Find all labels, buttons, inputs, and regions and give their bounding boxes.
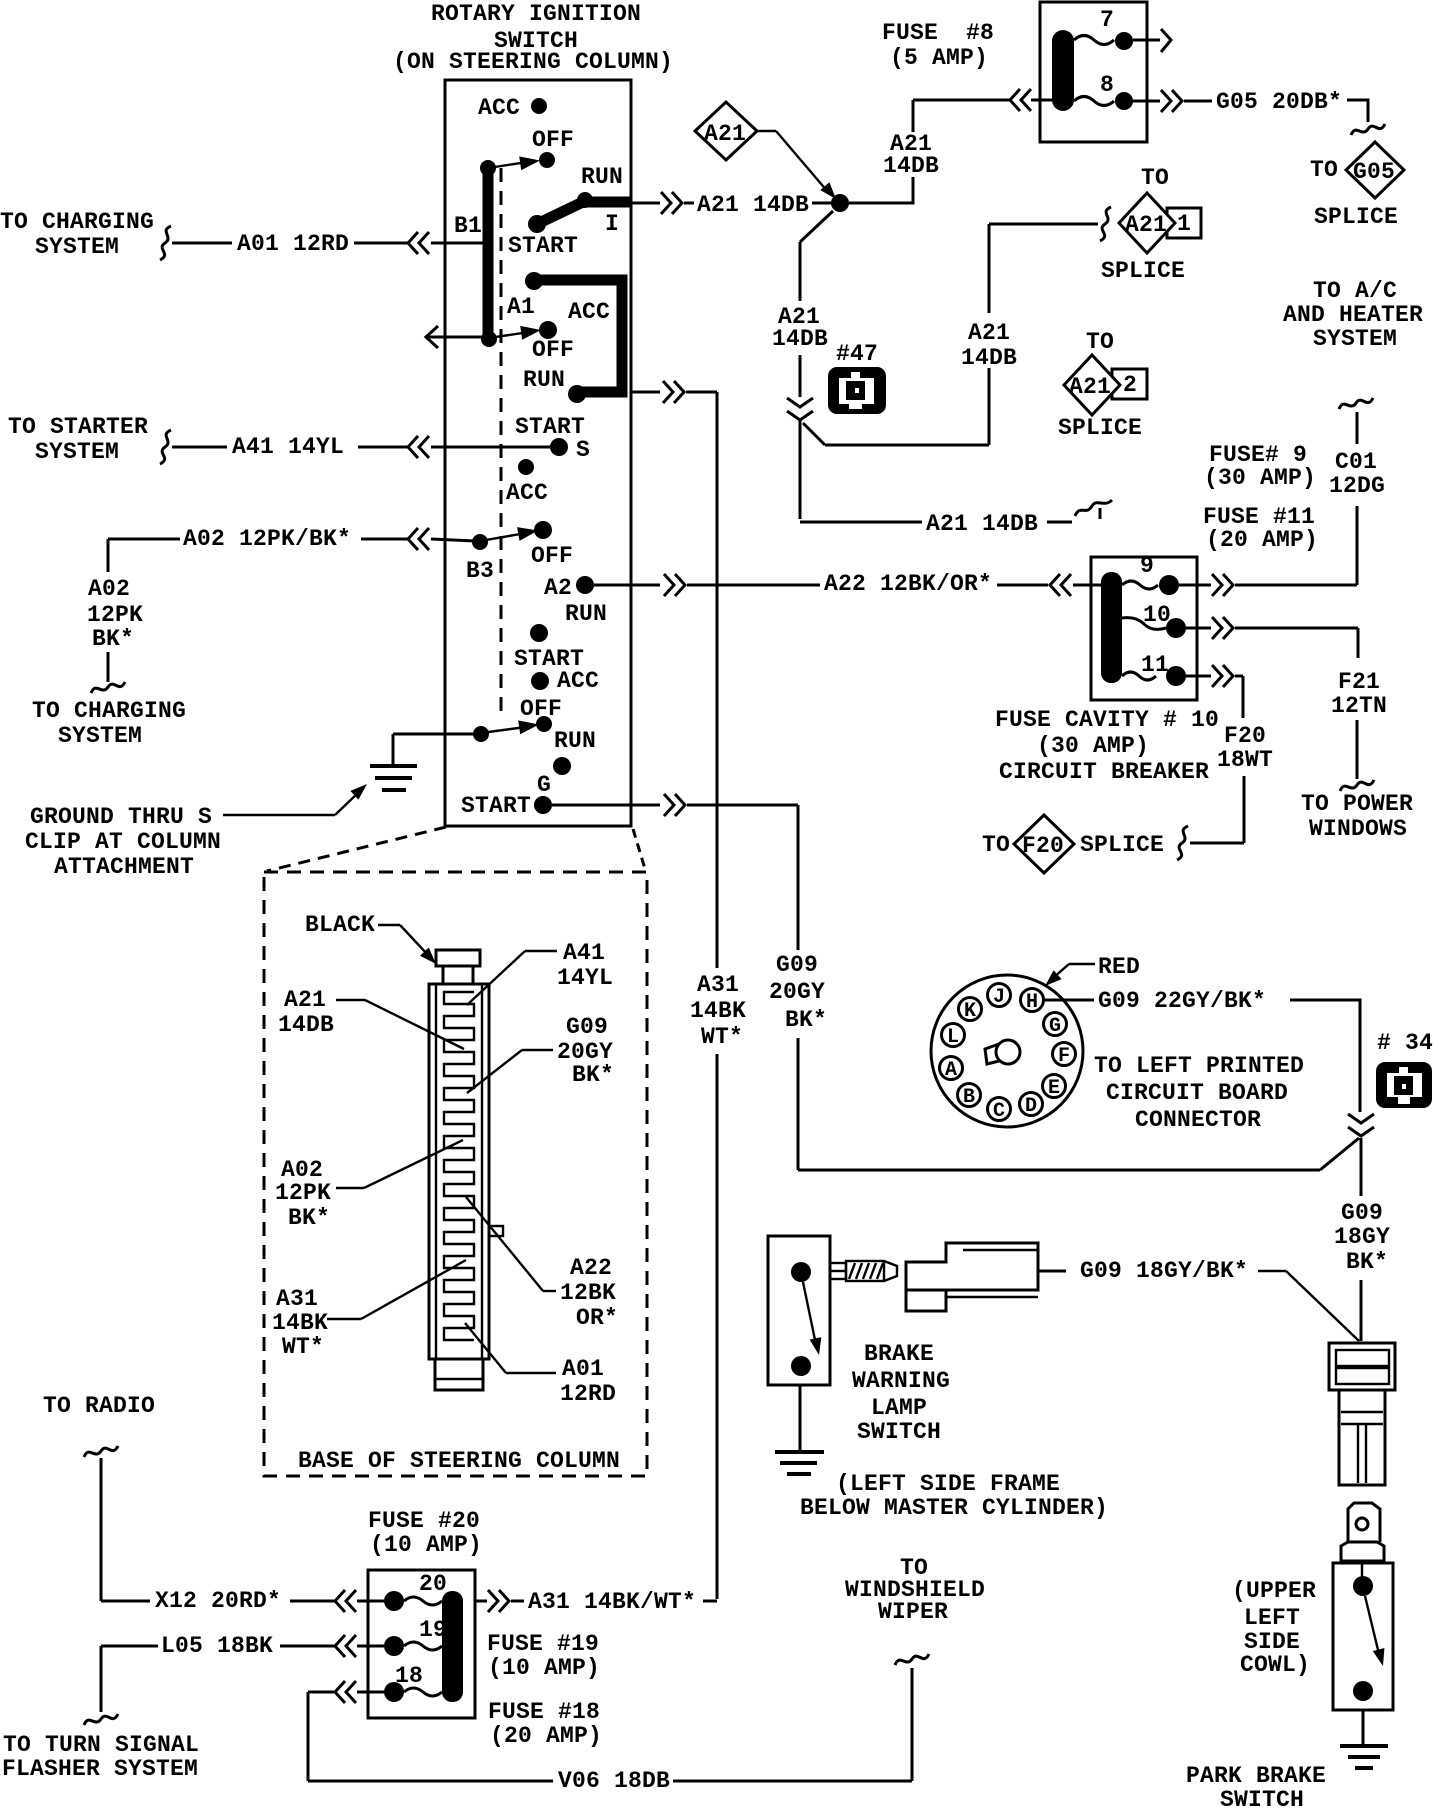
wire G09 18GY BK* down to park brake <box>1360 1138 1363 1196</box>
wire A21 14DB branch down from junction <box>800 211 833 242</box>
svg-text:ACC: ACC <box>557 668 599 694</box>
svg-text:START: START <box>515 414 585 440</box>
svg-text:SPLICE: SPLICE <box>1101 258 1185 284</box>
svg-text:14BK: 14BK <box>272 1310 328 1336</box>
svg-text:ACC: ACC <box>478 95 520 121</box>
svg-text:TO: TO <box>1086 329 1114 355</box>
svg-text:TO TURN SIGNAL: TO TURN SIGNAL <box>3 1732 199 1758</box>
contact START row1 + I <box>528 215 546 233</box>
svg-text:G09 22GY/BK*: G09 22GY/BK* <box>1098 988 1266 1014</box>
svg-text:(20 AMP): (20 AMP) <box>490 1723 602 1749</box>
svg-text:G: G <box>537 772 551 798</box>
svg-text:F21: F21 <box>1338 669 1380 695</box>
ground pointer arrow <box>223 814 335 816</box>
svg-text:I: I <box>605 211 619 237</box>
svg-text:PARK BRAKE: PARK BRAKE <box>1186 1763 1326 1789</box>
svg-text:A22 12BK/OR*: A22 12BK/OR* <box>824 571 992 597</box>
svg-text:12BK: 12BK <box>560 1280 616 1306</box>
svg-text:# 34: # 34 <box>1377 1030 1433 1056</box>
svg-text:12RD: 12RD <box>560 1381 616 1407</box>
svg-text:A01: A01 <box>562 1356 604 1382</box>
wire to windshield wiper <box>911 1668 914 1781</box>
svg-text:2: 2 <box>1123 372 1137 398</box>
svg-text:7: 7 <box>1100 7 1114 33</box>
thick bar RUN to box edge <box>583 197 631 208</box>
svg-text:TO: TO <box>1141 165 1169 191</box>
svg-text:#47: #47 <box>836 341 878 367</box>
park brake connector cap <box>1329 1343 1395 1390</box>
svg-text:(10 AMP): (10 AMP) <box>370 1532 482 1558</box>
svg-text:(ON STEERING COLUMN): (ON STEERING COLUMN) <box>393 49 673 75</box>
wiper arm B3: dot to ACC contact <box>472 534 488 550</box>
svg-text:SYSTEM: SYSTEM <box>1313 326 1397 352</box>
splice diamond A21 (top) <box>695 102 757 160</box>
pin B <box>958 1084 981 1107</box>
svg-text:14BK: 14BK <box>690 998 746 1024</box>
svg-text:G05: G05 <box>1353 159 1395 185</box>
pin K <box>959 998 982 1021</box>
svg-text:20: 20 <box>419 1571 447 1597</box>
svg-text:G: G <box>1049 1015 1061 1038</box>
wire ground row into switch <box>393 733 475 736</box>
park brake switch flange <box>1341 1542 1384 1561</box>
contact ACC row4 <box>531 672 549 690</box>
svg-text:(10 AMP): (10 AMP) <box>488 1655 600 1681</box>
pin D <box>1020 1093 1043 1116</box>
ground symbol (column clip) <box>392 734 395 766</box>
svg-text:TO STARTER: TO STARTER <box>8 414 148 440</box>
svg-text:WIPER: WIPER <box>878 1599 948 1625</box>
svg-text:A: A <box>945 1059 957 1082</box>
svg-text:J: J <box>993 986 1005 1009</box>
svg-text:14DB: 14DB <box>883 153 939 179</box>
svg-text:WT*: WT* <box>701 1024 743 1050</box>
wire A31 vertical <box>716 392 719 968</box>
svg-text:BRAKE: BRAKE <box>864 1341 934 1367</box>
svg-text:B: B <box>963 1086 975 1109</box>
svg-text:ATTACHMENT: ATTACHMENT <box>54 854 194 880</box>
svg-text:L05 18BK: L05 18BK <box>161 1633 273 1659</box>
svg-text:COWL): COWL) <box>1240 1652 1310 1678</box>
svg-text:H: H <box>1026 991 1038 1014</box>
svg-text:E: E <box>1048 1077 1060 1100</box>
svg-text:A21 14DB: A21 14DB <box>697 192 809 218</box>
wire START/G output row <box>552 804 660 807</box>
svg-text:V06 18DB: V06 18DB <box>558 1768 670 1794</box>
svg-text:(30 AMP): (30 AMP) <box>1037 733 1149 759</box>
svg-text:SYSTEM: SYSTEM <box>35 439 119 465</box>
svg-text:A02: A02 <box>88 576 130 602</box>
svg-text:TO A/C: TO A/C <box>1313 278 1397 304</box>
svg-text:START: START <box>461 793 531 819</box>
svg-text:A02 12PK/BK*: A02 12PK/BK* <box>183 526 351 552</box>
svg-text:A1: A1 <box>507 294 535 320</box>
svg-text:RED: RED <box>1098 954 1140 980</box>
svg-text:12PK: 12PK <box>87 602 143 628</box>
svg-text:BASE OF STEERING COLUMN: BASE OF STEERING COLUMN <box>298 1448 620 1474</box>
svg-text:9: 9 <box>1140 553 1154 579</box>
svg-text:ACC: ACC <box>506 480 548 506</box>
svg-text:14DB: 14DB <box>278 1012 334 1038</box>
svg-text:AND HEATER: AND HEATER <box>1283 302 1423 328</box>
pin J <box>988 984 1011 1007</box>
svg-text:18GY: 18GY <box>1334 1224 1390 1250</box>
wire G09 18GY/BK* <box>1038 1270 1066 1273</box>
park brake switch tab <box>1348 1503 1380 1542</box>
svg-text:FUSE #19: FUSE #19 <box>487 1631 599 1657</box>
svg-text:A31: A31 <box>697 972 739 998</box>
pin A <box>940 1057 963 1080</box>
wire A02 branch down <box>107 539 110 572</box>
svg-text:A21: A21 <box>1125 212 1167 238</box>
svg-text:G09 18GY/BK*: G09 18GY/BK* <box>1080 1258 1248 1284</box>
svg-text:B1: B1 <box>454 213 482 239</box>
svg-text:TO: TO <box>1310 157 1338 183</box>
svg-text:(UPPER: (UPPER <box>1232 1578 1316 1604</box>
svg-text:12DG: 12DG <box>1329 473 1385 499</box>
svg-text:BELOW MASTER CYLINDER): BELOW MASTER CYLINDER) <box>800 1495 1108 1521</box>
wire G09 22GY/BK* from pin H <box>1043 999 1094 1002</box>
left printed circuit board connector (round) <box>931 975 1083 1127</box>
svg-text:TO CHARGING: TO CHARGING <box>32 698 186 724</box>
svg-text:ACC: ACC <box>568 299 610 325</box>
svg-text:RUN: RUN <box>554 728 596 754</box>
contact START row3 <box>530 624 548 642</box>
rotary ignition switch body <box>445 80 631 826</box>
svg-text:L: L <box>947 1026 959 1049</box>
svg-text:12PK: 12PK <box>275 1180 331 1206</box>
svg-text:A31 14BK/WT*: A31 14BK/WT* <box>528 1589 696 1615</box>
svg-text:SPLICE: SPLICE <box>1058 415 1142 441</box>
wire F20 18WT <box>1242 676 1245 718</box>
svg-text:(5 AMP): (5 AMP) <box>890 45 988 71</box>
svg-text:ROTARY IGNITION: ROTARY IGNITION <box>431 1 641 27</box>
thick wiper START-RUN <box>537 201 585 224</box>
svg-text:A21: A21 <box>1069 374 1111 400</box>
svg-text:TO POWER: TO POWER <box>1301 791 1413 817</box>
svg-text:FUSE #20: FUSE #20 <box>368 1508 480 1534</box>
svg-text:BK*: BK* <box>92 626 134 652</box>
svg-text:WARNING: WARNING <box>852 1368 950 1394</box>
svg-text:14DB: 14DB <box>961 345 1017 371</box>
svg-text:FLASHER SYSTEM: FLASHER SYSTEM <box>2 1756 198 1782</box>
svg-text:K: K <box>964 1000 976 1023</box>
svg-text:RUN: RUN <box>523 367 565 393</box>
dashed box base of steering column <box>264 872 647 1476</box>
svg-text:A31: A31 <box>276 1286 318 1312</box>
svg-text:OFF: OFF <box>531 543 573 569</box>
pin G <box>1044 1013 1067 1036</box>
svg-text:CLIP AT COLUMN: CLIP AT COLUMN <box>25 829 221 855</box>
svg-text:TO: TO <box>982 832 1010 858</box>
svg-text:B3: B3 <box>466 558 494 584</box>
svg-text:CIRCUIT BOARD: CIRCUIT BOARD <box>1106 1080 1288 1106</box>
svg-text:A41: A41 <box>563 940 605 966</box>
wire G09 20GY/BK* vertical <box>797 805 800 950</box>
svg-text:A21: A21 <box>284 987 326 1013</box>
svg-text:FUSE #18: FUSE #18 <box>488 1699 600 1725</box>
svg-text:LEFT: LEFT <box>1244 1605 1300 1631</box>
fuse #8 block <box>1040 2 1147 142</box>
contact A1 <box>525 272 543 290</box>
svg-text:1: 1 <box>1177 211 1191 237</box>
connector body <box>429 984 489 1359</box>
svg-text:BK*: BK* <box>785 1007 827 1033</box>
svg-text:OR*: OR* <box>576 1305 618 1331</box>
svg-text:A21: A21 <box>704 121 746 147</box>
connector side tab <box>489 1226 503 1236</box>
svg-text:BK*: BK* <box>572 1062 614 1088</box>
wire A21 14DB output row <box>631 202 660 205</box>
svg-text:D: D <box>1025 1095 1037 1118</box>
dashed divider inside switch <box>500 168 503 716</box>
svg-text:12TN: 12TN <box>1331 693 1387 719</box>
wire C01 12DG <box>1356 506 1359 585</box>
park brake switch body <box>1333 1563 1393 1710</box>
ground park brake <box>1362 1710 1365 1746</box>
center keyway <box>996 1040 1020 1064</box>
pin F <box>1053 1043 1076 1066</box>
svg-text:RUN: RUN <box>565 601 607 627</box>
svg-text:SYSTEM: SYSTEM <box>35 234 119 260</box>
wiper arm ground row: dot to OFF contact <box>536 716 552 732</box>
wire stub row (B1 lower) <box>425 326 440 348</box>
svg-text:11: 11 <box>1141 652 1169 678</box>
contact ACC row3 <box>518 459 534 475</box>
pin L <box>942 1024 965 1047</box>
wire junction to fuse8: up and right <box>849 177 913 203</box>
svg-text:A21 14DB: A21 14DB <box>926 511 1038 537</box>
wire X12 20RD* <box>100 1458 103 1601</box>
svg-text:LAMP: LAMP <box>871 1395 927 1421</box>
svg-text:G09: G09 <box>776 952 818 978</box>
svg-text:8: 8 <box>1100 72 1114 98</box>
bus bar B1 (thick) <box>483 166 494 339</box>
ground below brake switch <box>799 1385 802 1452</box>
svg-text:F20: F20 <box>1022 833 1064 859</box>
dashed zoom-link diagonals <box>267 827 446 871</box>
svg-text:A41 14YL: A41 14YL <box>232 434 344 460</box>
svg-text:20GY: 20GY <box>769 979 825 1005</box>
fuse cavity block 9/10/11 <box>1091 557 1197 700</box>
svg-text:CONNECTOR: CONNECTOR <box>1135 1107 1261 1133</box>
mounting screw <box>830 1263 846 1279</box>
svg-text:TO LEFT PRINTED: TO LEFT PRINTED <box>1094 1053 1304 1079</box>
wire below break to splice A21-1 <box>803 423 825 445</box>
svg-text:19: 19 <box>419 1617 447 1643</box>
svg-text:BLACK: BLACK <box>305 912 375 938</box>
thick bar A1 loop to RUN2 <box>536 280 622 392</box>
svg-text:FUSE CAVITY # 10: FUSE CAVITY # 10 <box>995 707 1219 733</box>
svg-text:SPLICE: SPLICE <box>1314 204 1398 230</box>
wire A02 12PK/BK* <box>108 538 180 541</box>
svg-text:SWITCH: SWITCH <box>857 1419 941 1445</box>
inline connector break (A21) <box>787 398 813 420</box>
svg-text:14DB: 14DB <box>772 326 828 352</box>
tag line from diamond to junction <box>757 130 776 132</box>
wire into fuse 18 from V06 <box>308 1691 334 1694</box>
wire A21 14DB stub row <box>799 421 802 519</box>
svg-text:(30 AMP): (30 AMP) <box>1204 465 1316 491</box>
svg-text:BK*: BK* <box>288 1205 330 1231</box>
connector top cap <box>436 950 480 966</box>
brake warning lamp switch body <box>768 1236 830 1385</box>
fuse 20 output A31 14BK/WT* <box>475 1600 487 1603</box>
svg-text:F20: F20 <box>1224 723 1266 749</box>
pin E <box>1043 1075 1066 1098</box>
svg-text:RUN: RUN <box>581 164 623 190</box>
svg-text:G09: G09 <box>1341 1200 1383 1226</box>
svg-text:A2: A2 <box>544 575 572 601</box>
svg-text:TO CHARGING: TO CHARGING <box>0 209 154 235</box>
svg-text:OFF: OFF <box>532 337 574 363</box>
pin H <box>1021 989 1044 1012</box>
svg-text:SWITCH: SWITCH <box>1220 1787 1304 1808</box>
inline connector break (G09) <box>1348 1114 1374 1136</box>
svg-text:A01 12RD: A01 12RD <box>237 231 349 257</box>
svg-text:S: S <box>576 437 590 463</box>
svg-text:(LEFT SIDE FRAME: (LEFT SIDE FRAME <box>836 1471 1060 1497</box>
park brake connector body <box>1339 1390 1385 1485</box>
pin C <box>988 1098 1011 1121</box>
svg-text:14YL: 14YL <box>557 965 613 991</box>
svg-text:FUSE #8: FUSE #8 <box>882 20 994 46</box>
wire RUN output row <box>631 391 660 394</box>
svg-text:START: START <box>508 233 578 259</box>
svg-text:GROUND THRU S: GROUND THRU S <box>30 804 212 830</box>
svg-text:A21: A21 <box>968 320 1010 346</box>
connector bottom cap <box>435 1359 483 1390</box>
wiper arm B1 top: dot to OFF <box>480 160 496 176</box>
wiper arm row2: bus bottom dot to ACC/OFF <box>481 331 497 347</box>
junction node A21 <box>831 194 849 212</box>
brake lamp connector plug <box>906 1243 1038 1290</box>
svg-text:A22: A22 <box>570 1255 612 1281</box>
svg-text:(20 AMP): (20 AMP) <box>1206 527 1318 553</box>
svg-text:G09: G09 <box>566 1014 608 1040</box>
svg-text:18WT: 18WT <box>1217 747 1273 773</box>
svg-text:BK*: BK* <box>1346 1249 1388 1275</box>
svg-text:CIRCUIT BREAKER: CIRCUIT BREAKER <box>999 759 1209 785</box>
A2 output row / wire A22 12BK/OR* <box>594 584 660 587</box>
svg-text:SPLICE: SPLICE <box>1080 832 1164 858</box>
svg-text:OFF: OFF <box>532 127 574 153</box>
connector terminal maze <box>444 992 474 1340</box>
switch contacts + arm <box>791 1262 811 1282</box>
svg-text:X12 20RD*: X12 20RD* <box>155 1588 281 1614</box>
svg-text:C: C <box>993 1100 1005 1123</box>
svg-text:F: F <box>1058 1045 1070 1068</box>
svg-text:WINDOWS: WINDOWS <box>1309 816 1407 842</box>
svg-text:SYSTEM: SYSTEM <box>58 723 142 749</box>
wire F21 12TN <box>1357 628 1360 658</box>
svg-text:G05 20DB*: G05 20DB* <box>1216 89 1342 115</box>
svg-text:WT*: WT* <box>282 1334 324 1360</box>
svg-text:TO RADIO: TO RADIO <box>43 1393 155 1419</box>
svg-text:C01: C01 <box>1335 449 1377 475</box>
